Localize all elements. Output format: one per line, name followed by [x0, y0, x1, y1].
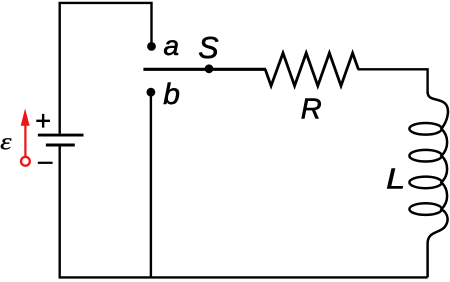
svg-text:L: L	[386, 162, 405, 195]
resistor R zigzag	[265, 53, 358, 86]
inductor L coil loop 2	[409, 150, 441, 162]
svg-text:b: b	[163, 78, 180, 111]
battery plus sign	[36, 114, 50, 128]
emf arrow shaft (red)	[24, 124, 26, 156]
inductor L coil loop 3	[409, 177, 441, 189]
inductor L backbone (entry curve, inter-loop arcs, exit curve)	[428, 92, 448, 277]
switch S pivot dot	[205, 64, 214, 73]
emf arrow head (red)	[21, 109, 30, 126]
svg-text:S: S	[198, 31, 219, 65]
svg-text:R: R	[301, 93, 322, 125]
svg-text:ε: ε	[0, 128, 12, 155]
wire: top-left loop (left wire upper segment, top wire, stub down to contact a)	[60, 3, 152, 134]
node b (switch contact dot)	[147, 88, 156, 97]
wire: resistor to top-right corner and down to inductor	[358, 69, 428, 93]
emf arrow tail circle (red, open)	[21, 157, 30, 166]
svg-text:a: a	[164, 30, 180, 61]
battery minus sign	[38, 162, 53, 164]
inductor L coil loop 1	[409, 123, 441, 135]
battery negative plate (short)	[46, 144, 75, 147]
wire: from contact b down to bottom wire	[150, 92, 152, 277]
node a (switch contact dot)	[147, 42, 156, 51]
switch S blade wire	[143, 68, 266, 71]
inductor L coil loop 4	[409, 203, 441, 215]
wire: bottom wire from battery to inductor	[60, 146, 428, 278]
battery positive plate (long)	[38, 134, 84, 137]
